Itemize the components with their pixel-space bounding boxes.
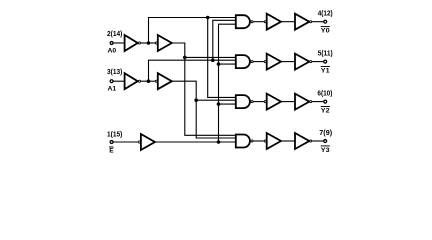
wire buffered E rail up to NAND1 input 3 — [219, 24, 236, 142]
wire buffered E to NAND3 input 3 — [219, 103, 236, 105]
NAND gate G2 — [236, 55, 250, 68]
inverter U3 output bubble — [138, 80, 140, 82]
output terminal Y1 — [324, 60, 327, 63]
svg-text:A0: A0 — [108, 48, 117, 55]
inverter U1 (A0) — [125, 35, 138, 51]
input terminal E — [110, 141, 113, 144]
buffer U8 input bubble — [264, 101, 266, 103]
junction buffered A0 to NAND2 — [183, 56, 187, 60]
inverter U10 output bubble — [310, 21, 312, 23]
inverter U11 output bubble — [310, 61, 312, 63]
buffer U2 (A0 re-buffer) — [158, 35, 172, 51]
input terminal A1 — [110, 80, 113, 83]
NAND G3 output bubble — [251, 101, 253, 103]
wire NAND G3 to buffer — [253, 101, 264, 103]
buffer U2 input bubble — [155, 42, 157, 44]
wire A1 input to inverter — [113, 80, 124, 82]
wire /A1 up and to NAND2 input 2 — [149, 60, 236, 81]
inverter U1 output bubble — [138, 42, 140, 44]
wire NAND G1 to buffer — [253, 21, 264, 23]
NAND G4 output bubble — [251, 140, 253, 142]
junction buffered E to NAND3 — [217, 102, 221, 106]
buffer U8 — [267, 94, 281, 110]
inverter U3 (A1) — [125, 73, 138, 89]
svg-text:A1: A1 — [108, 86, 117, 93]
wire buffered A1 from U4 down rail to NAND4 input 2 — [172, 81, 236, 138]
buffer U9 input bubble — [264, 140, 266, 142]
buffer U4 (A1 re-buffer) — [158, 73, 172, 89]
svg-text:3(13): 3(13) — [107, 67, 123, 76]
junction /A0 — [147, 41, 151, 45]
wire buffered E from U5 to NAND4 input 3 — [155, 141, 236, 143]
wire buffer U6 to inverter — [281, 21, 295, 23]
buffer U9 — [267, 133, 281, 149]
NAND G1 output bubble — [251, 21, 253, 23]
junction buffered E to NAND2 — [217, 62, 221, 66]
wire to output terminal Y3 — [312, 140, 324, 142]
svg-text:E: E — [109, 147, 114, 154]
buffer U5 input bubble — [138, 141, 140, 143]
wire to output terminal Y1 — [312, 61, 324, 63]
wire buffer U7 to inverter — [281, 61, 295, 63]
wire E input to buffer — [113, 141, 138, 143]
wire buffered A0 to NAND2 input 1 — [185, 56, 236, 58]
wire buffer U9 to inverter — [281, 140, 295, 142]
inverter U11 — [295, 54, 309, 70]
svg-text:Y0: Y0 — [321, 28, 330, 35]
buffer U7 — [267, 54, 281, 70]
svg-text:4(12): 4(12) — [318, 9, 334, 18]
svg-text:1(15): 1(15) — [107, 129, 123, 138]
buffer U6 input bubble — [264, 21, 266, 23]
wire /A0 node — [140, 42, 155, 44]
buffer U5 (E) — [141, 134, 155, 150]
inverter U13 output bubble — [310, 140, 312, 142]
wire buffered E to NAND2 input 3 — [219, 63, 236, 65]
wire /A0 up to NAND1 input 1 — [149, 18, 236, 44]
wire buffered A0 from U2 down rail to NAND4 input 1 — [172, 43, 236, 135]
inverter U13 — [295, 133, 309, 149]
wire buffer U8 to inverter — [281, 101, 295, 103]
wire /A1 node — [140, 80, 155, 82]
junction /A0 rail — [206, 16, 210, 20]
svg-text:Y1: Y1 — [321, 68, 330, 75]
junction buffered A1 to NAND3 — [194, 98, 198, 102]
svg-text:Y3: Y3 — [321, 147, 330, 154]
NAND G2 output bubble — [251, 61, 253, 63]
svg-text:2(14): 2(14) — [107, 29, 123, 38]
NAND gate G1 — [236, 15, 250, 28]
NAND gate G3 — [236, 95, 250, 108]
output terminal Y2 — [324, 100, 327, 103]
NAND gate G4 — [236, 135, 250, 148]
svg-text:6(10): 6(10) — [317, 88, 333, 97]
wire to output terminal Y2 — [312, 101, 324, 103]
output terminal Y0 — [324, 20, 327, 23]
junction /A1 rail — [211, 58, 215, 62]
junction buffered E rail bottom — [217, 140, 221, 144]
output terminal Y3 — [324, 140, 327, 143]
wire to output terminal Y0 — [312, 21, 324, 23]
inverter U10 — [295, 14, 309, 30]
wire A0 input to inverter — [113, 42, 124, 44]
input terminal A0 — [110, 42, 113, 45]
buffer U4 input bubble — [155, 80, 157, 82]
buffer U6 — [267, 14, 281, 30]
wire /A0 rail down to NAND3 input 1 — [208, 18, 236, 98]
svg-text:7(9): 7(9) — [319, 128, 332, 137]
wire NAND G4 to buffer — [253, 140, 264, 142]
inverter U12 output bubble — [310, 101, 312, 103]
wire /A1 rail up to NAND1 input 2 — [213, 20, 236, 60]
buffer U7 input bubble — [264, 61, 266, 63]
junction /A1 — [147, 79, 151, 83]
wire NAND G2 to buffer — [253, 61, 264, 63]
svg-text:Y2: Y2 — [321, 108, 330, 115]
wire buffered A1 to NAND3 input 2 — [196, 99, 236, 101]
svg-text:5(11): 5(11) — [318, 48, 334, 57]
inverter U12 — [295, 94, 309, 110]
